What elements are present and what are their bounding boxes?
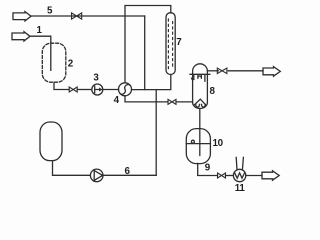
wire vessel2 outlet bbox=[54, 83, 69, 90]
wire hx4 right to column bottom bbox=[132, 75, 171, 90]
svg-text:3: 3 bbox=[93, 72, 99, 83]
wire vessel10 outlet line 9 bbox=[198, 163, 218, 175]
wire vessel8 top to valve4 bbox=[207, 70, 218, 72]
wire line1 bbox=[30, 36, 51, 70]
wire pump6 to x156 riser bbox=[103, 174, 156, 176]
label 9 bbox=[205, 162, 211, 173]
label 3 bbox=[93, 72, 99, 83]
valve V1 on line 5 bbox=[72, 13, 82, 19]
pump 3 bbox=[92, 84, 103, 95]
pump 6 bbox=[90, 169, 103, 182]
column 7 bbox=[166, 13, 175, 75]
wire valve4 to out arrow bbox=[228, 70, 263, 72]
svg-text:9: 9 bbox=[205, 162, 211, 173]
label 4 bbox=[114, 95, 120, 106]
wire hx4 top riser to column top bbox=[125, 6, 171, 83]
stream arrow in 1 bbox=[12, 32, 30, 41]
stream arrow in 5 bbox=[13, 12, 31, 21]
wire valve2 to pump3 bbox=[77, 89, 92, 91]
valve V2 bbox=[69, 87, 77, 92]
svg-text:7: 7 bbox=[176, 37, 182, 48]
wire line5 vertical drop bbox=[144, 16, 146, 90]
wire vessel to pump6 line 6 bbox=[53, 161, 91, 176]
stream arrow out bottom bbox=[262, 171, 279, 180]
valve V5 bbox=[218, 173, 226, 178]
label 7 bbox=[176, 37, 182, 48]
wire hx11 to out arrow bbox=[246, 175, 262, 177]
label 10 bbox=[213, 138, 224, 149]
label 2 bbox=[68, 59, 74, 70]
label 5 bbox=[47, 5, 53, 16]
heat exchanger 11 (cooler) bbox=[233, 157, 245, 181]
wire line5 junction vertical x156 bbox=[155, 90, 157, 176]
stream arrow out top bbox=[263, 67, 280, 77]
svg-text:1: 1 bbox=[37, 25, 43, 36]
vessel 2 (dashed tank) bbox=[42, 43, 66, 82]
wire hx4 bottom outlet bbox=[125, 96, 168, 102]
wire pump3 to hx4 bbox=[103, 89, 119, 91]
label 1 bbox=[37, 25, 43, 36]
heat exchanger 4 bbox=[119, 83, 132, 96]
label 8 bbox=[210, 86, 216, 97]
wire vessel8 bottom to vessel10 bbox=[199, 108, 201, 155]
svg-text:10: 10 bbox=[213, 138, 224, 149]
label 11 bbox=[235, 183, 246, 194]
valve V3 bbox=[168, 99, 176, 104]
wire valve3 to vessel8 bbox=[176, 101, 193, 103]
storage vessel (unlabeled) bbox=[40, 122, 62, 161]
svg-text:2: 2 bbox=[68, 59, 74, 70]
svg-text:4: 4 bbox=[114, 95, 120, 106]
label 6 bbox=[125, 166, 131, 177]
svg-text:5: 5 bbox=[47, 5, 53, 16]
wire line5 horizontal bbox=[31, 15, 145, 17]
wire valve5 to hx11 bbox=[226, 175, 234, 177]
valve V4 bbox=[217, 68, 227, 73]
vessel 10 bbox=[186, 129, 210, 164]
svg-text:6: 6 bbox=[125, 166, 131, 177]
svg-text:11: 11 bbox=[235, 183, 246, 194]
vessel 8 bbox=[190, 64, 210, 109]
svg-text:8: 8 bbox=[210, 86, 216, 97]
